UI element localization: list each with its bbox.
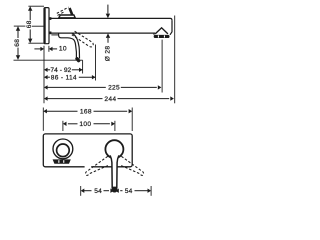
spout aerator front	[53, 159, 71, 163]
spout nose chevron	[155, 28, 168, 34]
front plate	[43, 134, 132, 167]
244 dimension	[44, 96, 48, 100]
svg-text:100: 100	[79, 121, 91, 128]
74-92 dimension	[44, 68, 48, 72]
aerator band side	[154, 35, 170, 38]
handle-tip reference line	[14, 59, 83, 61]
spout inner circle front	[57, 144, 70, 157]
spout bar top line	[49, 18, 172, 20]
svg-text:54: 54	[125, 188, 133, 195]
225 dimension	[44, 85, 48, 89]
dashed lever left	[86, 156, 109, 175]
spout right edge	[170, 20, 172, 34]
svg-text:168: 168	[80, 109, 92, 116]
handle dashed (swung position)	[72, 31, 93, 47]
handle stem front	[110, 155, 119, 190]
lever base plate	[59, 15, 75, 18]
svg-text:225: 225	[108, 85, 120, 92]
handle circle front	[105, 140, 123, 158]
100 dimension	[62, 121, 64, 131]
outer 68 dimension line	[17, 30, 19, 38]
168 dimension	[42, 108, 44, 131]
86-114 dimension	[44, 75, 48, 79]
inner 68 dimension line	[29, 10, 31, 20]
spout bar bottom line	[49, 33, 154, 35]
dashed lever right	[121, 156, 144, 175]
handle lever below spout (solid)	[59, 33, 77, 58]
sleeve under-edge line	[51, 34, 58, 36]
supply stub line behind wall	[32, 25, 44, 27]
dia 28 leader below	[107, 38, 109, 43]
10 dimension	[43, 46, 45, 104]
wall plate thick left edge	[44, 8, 46, 43]
flow arrow above spout	[107, 5, 109, 14]
handle tip dark end	[77, 59, 79, 61]
svg-text:10: 10	[59, 46, 67, 53]
spout axis tick left	[14, 25, 26, 27]
wall plate escutcheon side	[44, 8, 49, 44]
svg-text:54: 54	[94, 188, 102, 195]
trim ring tick top	[49, 17, 51, 20]
svg-text:Ø 28: Ø 28	[105, 46, 112, 62]
svg-text:86 - 114: 86 - 114	[51, 75, 77, 82]
handle stem dark tip	[112, 187, 117, 193]
lever dashed (alternate position)	[57, 7, 69, 15]
white gaps on plate bottom under dashed tips	[85, 166, 92, 168]
svg-text:74 - 92: 74 - 92	[50, 67, 71, 74]
svg-text:68: 68	[14, 39, 21, 47]
trim ring tick bottom	[49, 32, 51, 35]
svg-text:68: 68	[26, 20, 33, 28]
svg-text:244: 244	[104, 96, 116, 103]
inner 68 ticks	[28, 5, 44, 7]
lever arm solid	[70, 8, 73, 15]
54 54 dimension	[80, 186, 82, 196]
spout outer circle front	[53, 139, 73, 159]
